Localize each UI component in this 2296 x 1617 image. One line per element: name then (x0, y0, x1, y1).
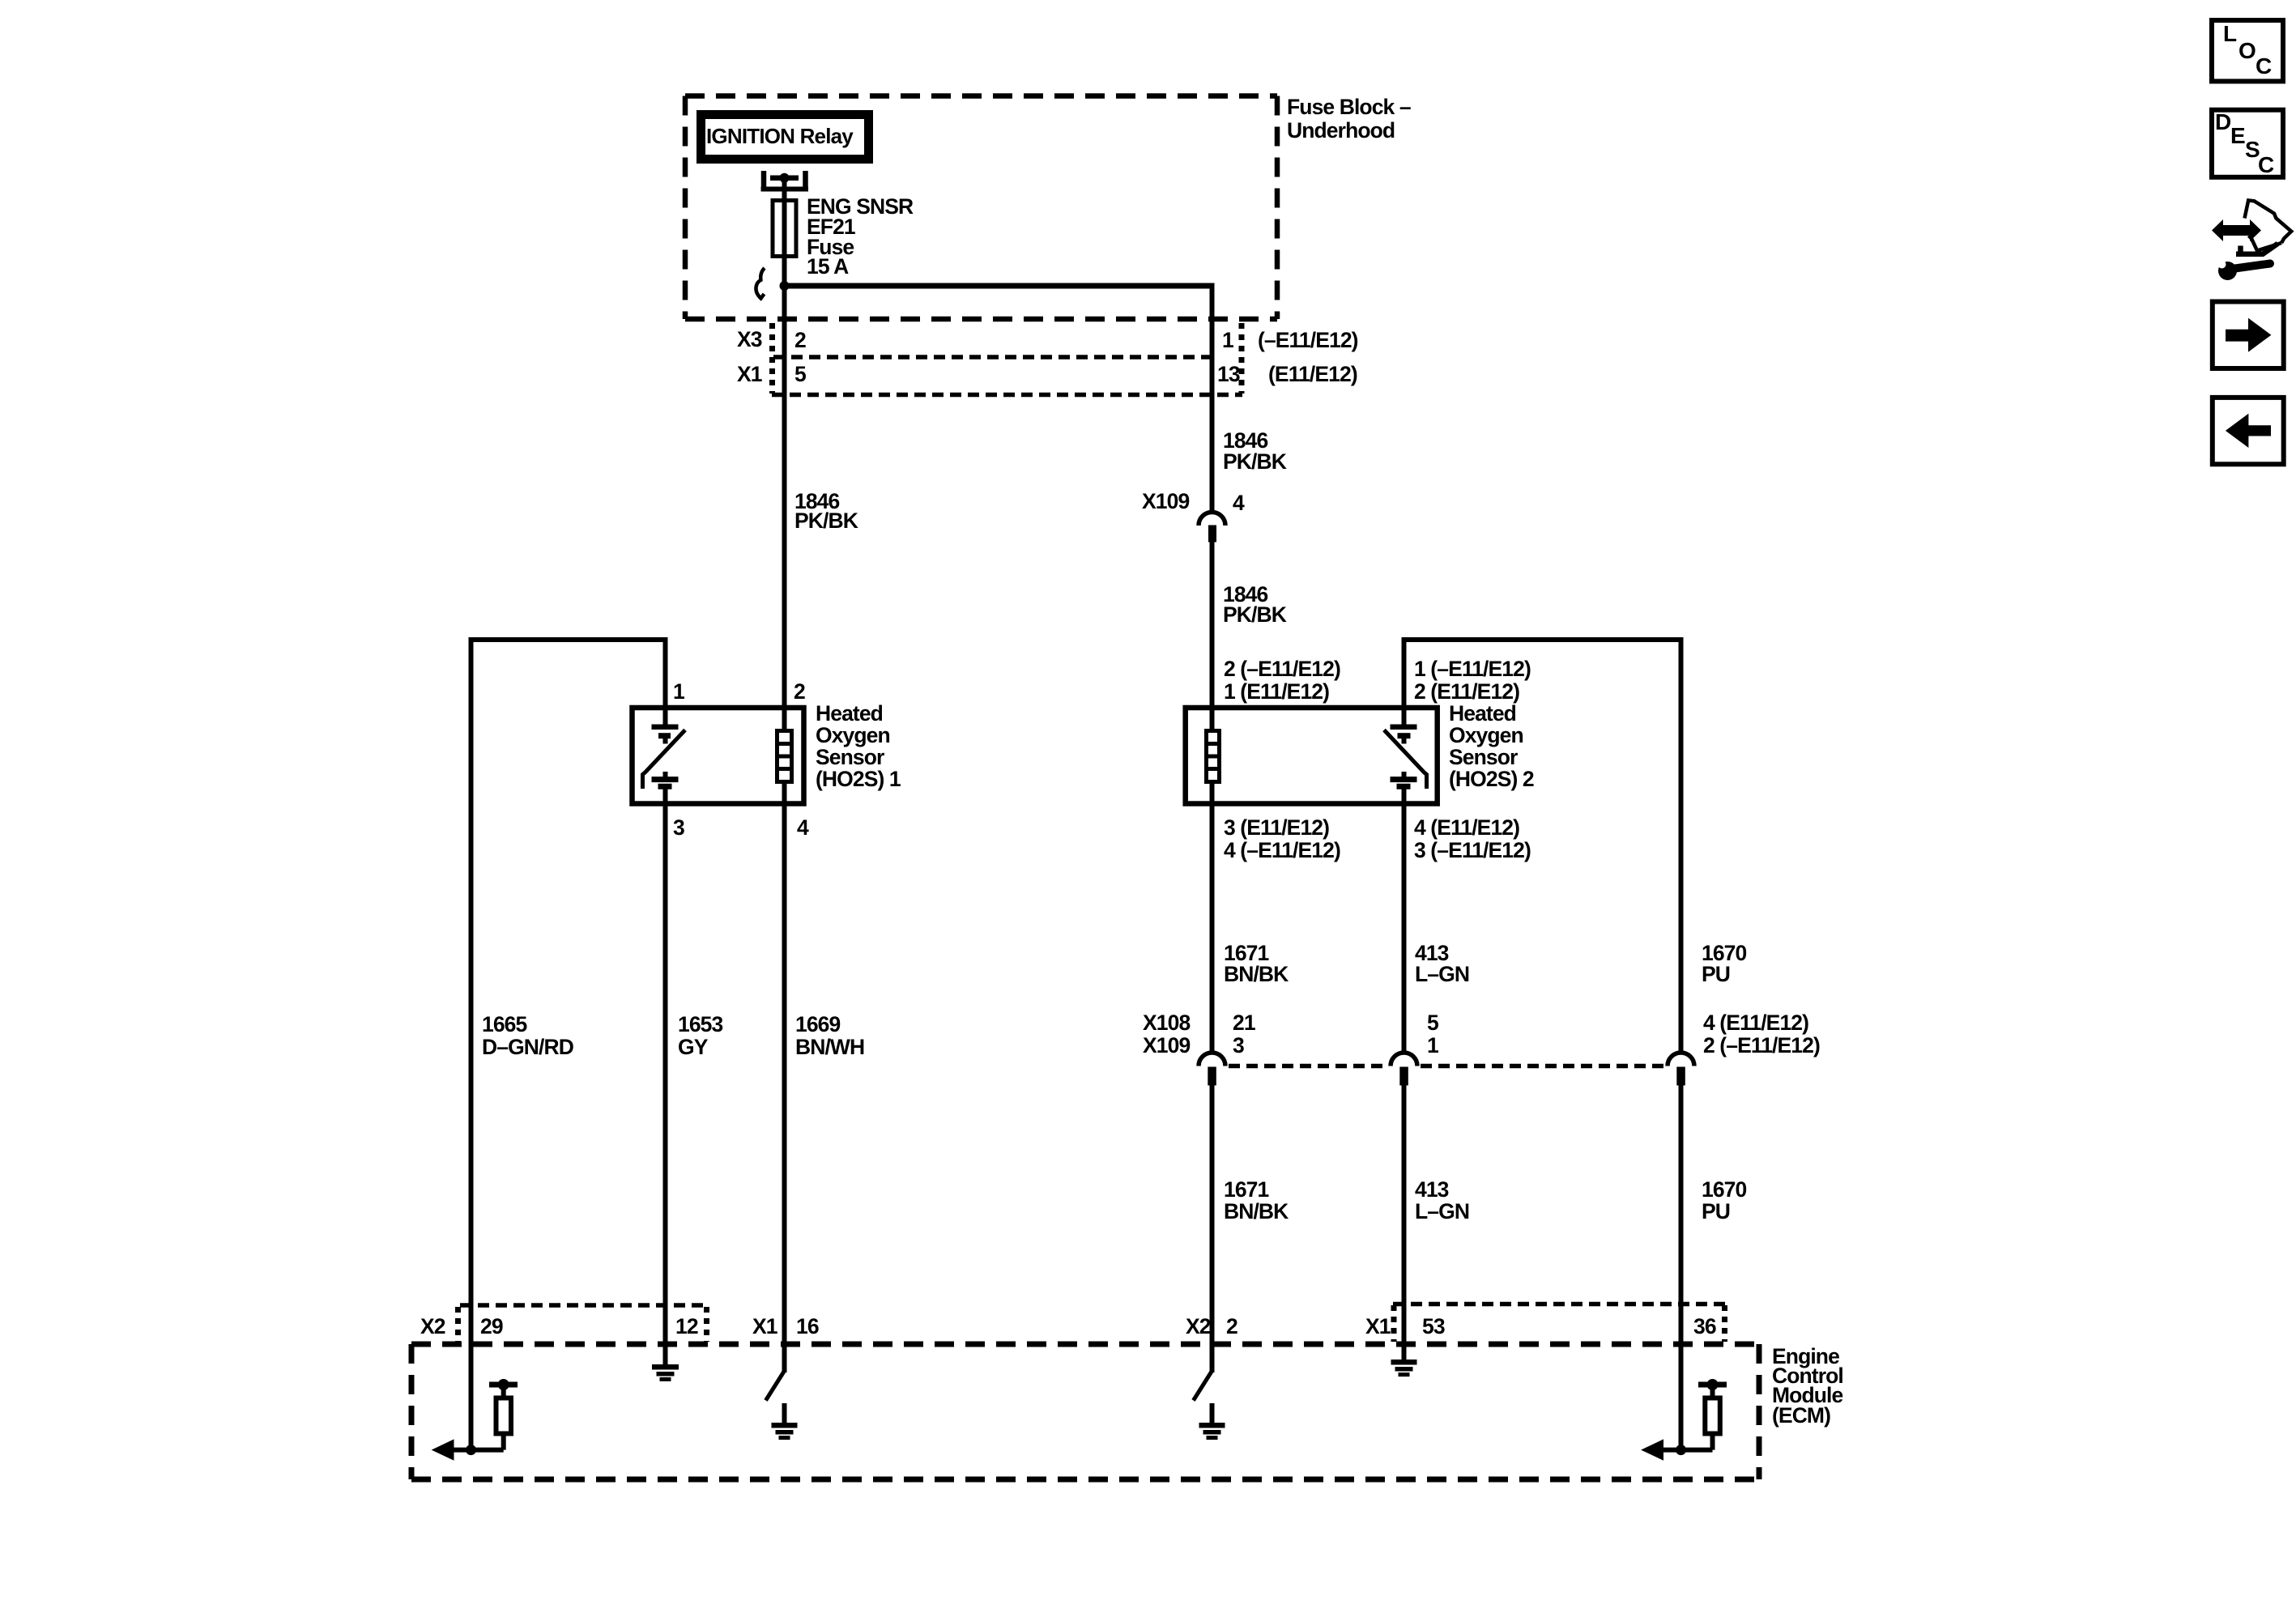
label wire 1846 PK/BK above X109 (1223, 428, 1287, 474)
svg-text:(ECM): (ECM) (1772, 1403, 1830, 1428)
connector X108/X109 terminal 3 (1668, 1053, 1694, 1086)
icon wrench (2218, 261, 2271, 281)
wire 413 upper segment (1402, 802, 1407, 1053)
icon DESC box (2212, 109, 2283, 177)
svg-text:1: 1 (673, 679, 684, 704)
wire 1665 left column (469, 637, 668, 1450)
svg-text:PK/BK: PK/BK (794, 509, 858, 533)
svg-text:36: 36 (1693, 1314, 1716, 1338)
label HO2S2 left pin 2/1 (1224, 657, 1340, 704)
connector X109 pin 4 (1199, 513, 1225, 543)
svg-text:BN/WH: BN/WH (795, 1035, 864, 1059)
ECM pin 29 input junction dot (466, 1445, 476, 1455)
ECM pin 53 ground (1391, 1344, 1417, 1375)
svg-text:3 (E11/E12): 3 (E11/E12) (1224, 815, 1329, 840)
label Engine Control Module (ECM) (1772, 1344, 1843, 1428)
svg-text:(E11/E12): (E11/E12) (1268, 362, 1357, 386)
HO2S1 sensor box (633, 708, 804, 804)
HO2S2 sensor box (1186, 708, 1438, 804)
svg-text:PU: PU (1702, 962, 1730, 986)
ECM pin 2 internal ground (1199, 1403, 1225, 1438)
svg-text:(HO2S) 1: (HO2S) 1 (816, 767, 901, 791)
svg-text:PU: PU (1702, 1199, 1730, 1223)
svg-text:1669: 1669 (795, 1012, 841, 1036)
svg-text:15 A: 15 A (807, 254, 849, 279)
svg-text:2 (–E11/E12): 2 (–E11/E12) (1703, 1033, 1820, 1057)
current tap clip symbol (756, 268, 765, 299)
svg-text:Oxygen: Oxygen (1449, 723, 1523, 747)
svg-text:16: 16 (796, 1314, 819, 1338)
label wire 1670 PU upper (1702, 941, 1747, 986)
wire 1671 lower segment (1210, 1085, 1215, 1347)
label pins 4 2 E11/E12 (1703, 1011, 1820, 1057)
svg-text:X109: X109 (1142, 489, 1189, 513)
svg-text:5: 5 (794, 362, 806, 386)
junction node dot (780, 281, 790, 291)
icon next arrow box (2213, 302, 2284, 369)
ECM pin 12 ground (652, 1344, 679, 1379)
svg-text:BN/BK: BN/BK (1224, 962, 1289, 986)
HO2S1 heater element (777, 708, 792, 803)
svg-text:C: C (2256, 53, 2272, 79)
ECM pin 2 driver switch (1194, 1344, 1212, 1401)
ECM pin 16 internal ground (772, 1403, 798, 1438)
label wire 1846 PK/BK left (794, 489, 858, 533)
label pin 3 (673, 815, 684, 840)
ECM pull-up resistor R1 (489, 1379, 518, 1450)
label HO2S2 lower left pin 3/4 (1224, 815, 1340, 862)
svg-text:4: 4 (797, 815, 809, 840)
label pin 4 (797, 815, 809, 840)
label Fuse Block - Underhood (1287, 95, 1411, 143)
svg-text:2 (E11/E12): 2 (E11/E12) (1414, 679, 1519, 704)
svg-text:Oxygen: Oxygen (816, 723, 890, 747)
svg-text:1: 1 (1222, 328, 1233, 352)
label Heated Oxygen Sensor (HO2S) 1 (816, 701, 901, 791)
wire 1671 upper segment (1210, 802, 1215, 1053)
svg-text:X3: X3 (737, 327, 762, 351)
svg-text:Heated: Heated (1449, 701, 1516, 726)
label pin 2 (794, 679, 805, 704)
wire HO2S2 right pin down (1402, 637, 1407, 727)
label wire 1669 BN/WH (795, 1012, 864, 1059)
svg-text:3: 3 (673, 815, 684, 840)
svg-text:4: 4 (1233, 491, 1245, 515)
ECM dashed box (411, 1344, 1759, 1479)
connector X2 dotted box left (458, 1305, 709, 1342)
ECM pin 36 input junction dot (1676, 1445, 1686, 1455)
label pin 1 (673, 679, 684, 704)
svg-text:2: 2 (794, 328, 806, 352)
svg-text:1671: 1671 (1224, 1177, 1269, 1202)
connector dashed link 1-2 (1229, 1064, 1388, 1069)
svg-text:1 (E11/E12): 1 (E11/E12) (1224, 679, 1329, 704)
label X1 53 (1365, 1314, 1445, 1338)
label X1 16 (752, 1314, 819, 1338)
wire X109 to HO2S2 pin (1210, 542, 1215, 709)
svg-text:1: 1 (1427, 1033, 1438, 1057)
svg-text:L–GN: L–GN (1415, 1199, 1469, 1223)
connector dashed link 2-3 (1421, 1064, 1665, 1069)
ECM pin 36 signal line and arrow (1643, 1440, 1713, 1459)
label wire 1671 BN/BK lower (1224, 1177, 1289, 1223)
label X2 2 (1186, 1314, 1237, 1338)
label X3 pins (737, 327, 1358, 352)
label wire 1653 GY (678, 1012, 723, 1059)
connector X108/X109 terminal 1 (1199, 1053, 1225, 1086)
svg-text:4 (–E11/E12): 4 (–E11/E12) (1224, 838, 1340, 862)
svg-text:12: 12 (675, 1314, 698, 1338)
wire 413 lower segment (1402, 1085, 1407, 1347)
label X1 pins (737, 362, 1357, 386)
wire 1670 lower segment (1679, 1085, 1684, 1450)
svg-text:1 (–E11/E12): 1 (–E11/E12) (1414, 657, 1531, 681)
label wire 1670 PU lower (1702, 1177, 1747, 1223)
fuse block underhood dashed box (685, 96, 1277, 320)
svg-text:3 (–E11/E12): 3 (–E11/E12) (1414, 838, 1531, 862)
svg-text:Heated: Heated (816, 701, 883, 726)
svg-text:Underhood: Underhood (1287, 118, 1395, 143)
fuse EF21 ENG SNSR 15A (773, 201, 796, 257)
svg-text:D–GN/RD: D–GN/RD (482, 1035, 574, 1059)
relay K IGNITION Relay box (701, 115, 869, 160)
svg-text:1670: 1670 (1702, 1177, 1747, 1202)
svg-text:2: 2 (1226, 1314, 1237, 1338)
relay contact terminal bracket (761, 171, 809, 191)
connector X1 dotted box right (1393, 1304, 1725, 1343)
wire 1669 pin4 to ECM (782, 802, 787, 1347)
svg-text:29: 29 (480, 1314, 503, 1338)
label wire 413 L-GN upper (1415, 941, 1469, 986)
wire junction to right branch (785, 283, 1215, 289)
label pins 21 3 (1233, 1011, 1255, 1057)
HO2S1 variable arrow (643, 730, 686, 789)
svg-text:PK/BK: PK/BK (1223, 602, 1287, 627)
HO2S1 sense cell battery (652, 708, 679, 803)
label ENG SNSR EF21 Fuse 15 A (807, 194, 914, 279)
label HO2S2 lower right pin 4/3 (1414, 815, 1531, 862)
wire 1653 pin3 to ECM (663, 802, 668, 1347)
wire C X1-5 down to HO2S1 pin 2 (782, 288, 787, 708)
icon LOC box (2212, 20, 2283, 81)
icon previous arrow box (2213, 398, 2284, 464)
svg-text:X2: X2 (420, 1314, 445, 1338)
HO2S2 variable arrow (1384, 730, 1427, 789)
label wire 1671 BN/BK upper (1224, 941, 1289, 986)
ECM pin 29 signal line and arrow (433, 1440, 504, 1459)
svg-text:GY: GY (678, 1035, 709, 1059)
label wire 1665 D-GN/RD (482, 1012, 574, 1059)
svg-text:IGNITION Relay: IGNITION Relay (706, 124, 854, 148)
svg-text:X1: X1 (752, 1314, 777, 1338)
svg-text:413: 413 (1415, 1177, 1449, 1202)
svg-text:4 (E11/E12): 4 (E11/E12) (1703, 1011, 1808, 1035)
label HO2S2 right pin 1/2 (1414, 657, 1531, 704)
ECM pin 16 driver switch (766, 1344, 785, 1401)
svg-text:D: D (2215, 109, 2231, 134)
wire HO2S2 top horizontal to right column (1404, 637, 1684, 1053)
svg-text:Fuse Block –: Fuse Block – (1287, 95, 1411, 119)
HO2S2 heater element (1207, 708, 1220, 803)
icon harness repair double arrow (2212, 219, 2261, 241)
svg-text:2 (–E11/E12): 2 (–E11/E12) (1224, 657, 1340, 681)
svg-text:5: 5 (1427, 1011, 1438, 1035)
svg-text:X1: X1 (737, 362, 762, 386)
svg-text:X108: X108 (1143, 1011, 1190, 1035)
wire HO2S1 pin 1 (663, 637, 668, 710)
svg-text:X2: X2 (1186, 1314, 1211, 1338)
svg-text:Sensor: Sensor (1449, 745, 1518, 769)
svg-text:21: 21 (1233, 1011, 1255, 1035)
svg-text:X109: X109 (1143, 1033, 1190, 1057)
svg-text:PK/BK: PK/BK (1223, 449, 1287, 474)
icon harness outline (2236, 201, 2291, 254)
label Heated Oxygen Sensor (HO2S) 2 (1449, 701, 1534, 791)
wire branch down to X109 (1210, 283, 1215, 513)
svg-text:13: 13 (1217, 362, 1240, 386)
connector X3 row (772, 323, 1242, 395)
svg-text:L–GN: L–GN (1415, 962, 1469, 986)
svg-text:3: 3 (1233, 1033, 1244, 1057)
svg-text:(–E11/E12): (–E11/E12) (1258, 328, 1358, 352)
connector X108/X109 terminal 2 (1391, 1053, 1417, 1086)
svg-text:1653: 1653 (678, 1012, 723, 1036)
svg-text:O: O (2238, 38, 2256, 63)
svg-text:4 (E11/E12): 4 (E11/E12) (1414, 815, 1519, 840)
svg-text:(HO2S) 2: (HO2S) 2 (1449, 767, 1534, 791)
svg-text:X1: X1 (1365, 1314, 1391, 1338)
label pins 5 1 (1427, 1011, 1438, 1057)
svg-text:53: 53 (1422, 1314, 1445, 1338)
label wire 1846 PK/BK below X109 (1223, 582, 1287, 627)
svg-text:E: E (2230, 123, 2246, 148)
svg-text:L: L (2223, 21, 2237, 46)
label wire 413 L-GN lower (1415, 1177, 1469, 1223)
label connector X108 X109 (1143, 1011, 1190, 1057)
HO2S2 sense cell battery (1391, 708, 1417, 803)
svg-text:Sensor: Sensor (816, 745, 884, 769)
wire relay to fuse to junction (782, 177, 787, 288)
svg-text:2: 2 (794, 679, 805, 704)
svg-text:C: C (2258, 152, 2274, 177)
ECM pull-up resistor R2 (1698, 1379, 1727, 1450)
svg-text:BN/BK: BN/BK (1224, 1199, 1289, 1223)
label 36 (1693, 1314, 1716, 1338)
label X2 29 12 (420, 1314, 698, 1338)
svg-text:1665: 1665 (482, 1012, 527, 1036)
label X109 4 (1142, 489, 1245, 515)
